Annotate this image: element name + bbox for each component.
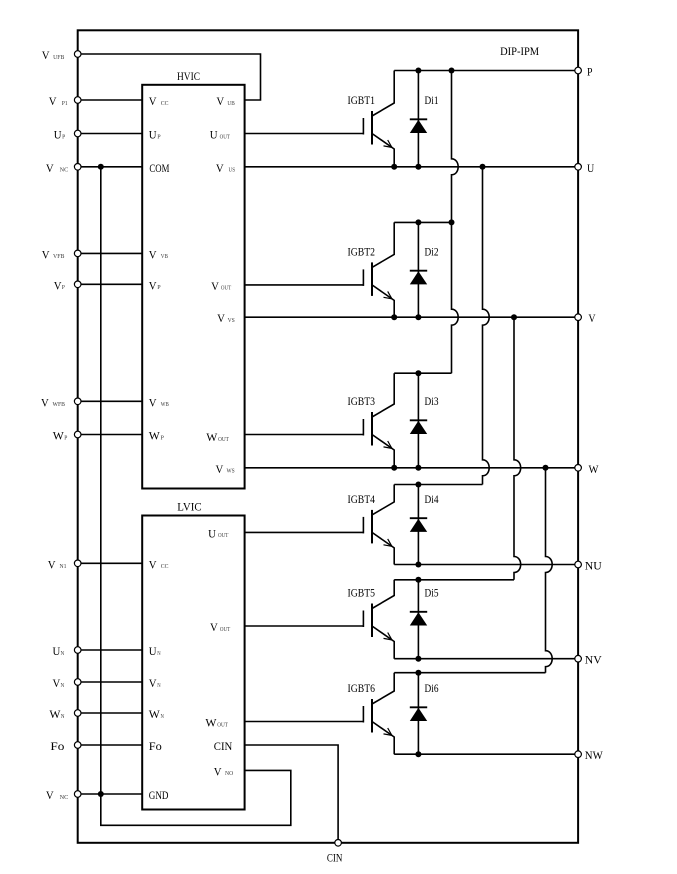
svg-text:U: U: [210, 130, 218, 142]
HVIC pin label VVS: [217, 313, 235, 325]
HVIC pin label UOUT: [210, 130, 230, 142]
wire IGBT2 collector rail: [394, 221, 451, 223]
wire IGBT4 collector rail: [394, 484, 482, 486]
wire HVIC UOUT to IGBT1 gate: [245, 133, 364, 135]
svg-text:U: U: [208, 528, 216, 540]
svg-text:P: P: [157, 133, 161, 140]
terminal pin NU: [575, 561, 603, 573]
svg-text:Di5: Di5: [425, 588, 439, 600]
LVIC pin label VOUT: [210, 622, 230, 634]
wire VNC bus and VNO return: [101, 167, 291, 826]
svg-text:IGBT5: IGBT5: [348, 588, 376, 600]
node VNC-COM junction: [98, 164, 104, 170]
svg-text:IGBT3: IGBT3: [348, 396, 376, 408]
svg-text:P1: P1: [62, 100, 68, 107]
svg-text:W: W: [205, 718, 216, 730]
svg-text:V: V: [48, 559, 56, 571]
wire VWFB to HVIC VWB: [78, 400, 143, 402]
svg-text:N: N: [61, 650, 65, 657]
LVIC pin label Fo: [149, 741, 162, 753]
svg-text:Di3: Di3: [425, 396, 439, 408]
node P-feedA junction: [449, 68, 455, 74]
HVIC pin label COM: [149, 163, 169, 175]
wire W feed to IGBT6 collector (hops NU and NV rails): [546, 468, 553, 673]
IGBT3 label: [348, 396, 376, 408]
svg-text:NC: NC: [60, 167, 69, 174]
svg-text:NU: NU: [585, 561, 603, 573]
HVIC pin label VCC: [149, 96, 169, 108]
wire NV rail: [394, 658, 578, 660]
svg-text:W: W: [53, 431, 64, 443]
terminal pin VNC: [46, 790, 81, 802]
svg-text:V: V: [216, 163, 224, 175]
node C2-Di2 junction: [415, 219, 421, 225]
HVIC pin label VUS: [216, 163, 236, 175]
node W-feedD junction: [543, 465, 549, 471]
HVIC pin label UP: [149, 130, 161, 142]
transistor IGBT4: [363, 485, 394, 565]
wire U rail (VUS to U terminal): [245, 166, 578, 168]
transistor IGBT6: [363, 673, 394, 755]
LVIC pin label VNO: [214, 766, 234, 778]
svg-text:V: V: [42, 249, 50, 261]
svg-text:V: V: [588, 313, 596, 325]
wire HVIC WOUT to IGBT3 gate: [245, 434, 364, 436]
terminal pin V: [575, 313, 596, 325]
terminal pin UN: [53, 646, 81, 658]
node C6-Di6 junction: [415, 670, 421, 676]
svg-text:US: US: [229, 167, 236, 174]
svg-text:N: N: [161, 713, 165, 720]
Di1 label: [425, 95, 439, 107]
svg-text:W: W: [149, 431, 160, 443]
svg-text:OUT: OUT: [218, 532, 228, 539]
LVIC pin label UN: [149, 646, 161, 658]
Di6 label: [425, 683, 439, 695]
terminal pin VVFB: [42, 249, 81, 261]
terminal pin VWFB: [41, 397, 81, 409]
node U-Di1 junction: [415, 164, 421, 170]
HVIC pin label VP: [149, 280, 161, 292]
terminal pin NW: [575, 750, 603, 762]
node V-feedC junction: [511, 314, 517, 320]
terminal pin VN1: [48, 559, 81, 571]
svg-text:W: W: [206, 432, 217, 444]
wire UN to LVIC UN: [78, 649, 143, 651]
LVIC pin label VN: [149, 678, 161, 690]
svg-text:V: V: [42, 50, 50, 62]
IGBT6 label: [348, 683, 376, 695]
IGBT5 label: [348, 588, 376, 600]
node C4-Di4 junction: [415, 482, 421, 488]
svg-text:NO: NO: [225, 770, 233, 777]
LVIC pin label GND: [149, 790, 169, 802]
svg-text:U: U: [149, 130, 157, 142]
LVIC pin label VCC: [149, 559, 169, 571]
svg-text:V: V: [149, 559, 157, 571]
svg-text:UFB: UFB: [53, 54, 65, 61]
terminal pin UP: [54, 130, 81, 142]
svg-text:OUT: OUT: [218, 436, 229, 443]
transistor IGBT1: [363, 71, 394, 167]
svg-text:V: V: [217, 313, 225, 325]
node NW-Di6 junction: [415, 751, 421, 757]
wire IGBT3 collector rail: [394, 372, 451, 374]
svg-text:OUT: OUT: [221, 285, 231, 292]
node C3-Di3 junction: [415, 370, 421, 376]
diode Di5: [410, 580, 427, 659]
svg-text:WS: WS: [227, 468, 236, 475]
terminal pin WN: [49, 709, 81, 721]
node U-emitter1 junction: [391, 164, 397, 170]
wire WP to HVIC WP: [78, 434, 143, 436]
svg-text:NV: NV: [585, 655, 603, 667]
svg-text:V: V: [41, 397, 49, 409]
svg-text:V: V: [46, 790, 54, 802]
svg-text:IGBT4: IGBT4: [348, 494, 376, 506]
wire IGBT5 collector rail: [394, 579, 514, 581]
svg-text:GND: GND: [149, 790, 169, 802]
DIP-IPM module outline box: [78, 30, 578, 843]
wire P feed to IGBT2 and IGBT3 collectors (hops U and V rails): [452, 71, 459, 374]
svg-text:U: U: [149, 646, 157, 658]
diode Di6: [410, 673, 427, 755]
wire LVIC UOUT to IGBT4 gate: [245, 531, 364, 533]
diode Di4: [410, 485, 427, 565]
IGBT4 label: [348, 494, 376, 506]
HVIC pin label WP: [149, 431, 164, 443]
node NU-Di4 junction: [415, 562, 421, 568]
svg-text:VB: VB: [161, 253, 169, 260]
svg-text:V: V: [214, 766, 222, 778]
svg-text:OUT: OUT: [217, 721, 228, 728]
terminal pin CIN: [327, 840, 343, 865]
svg-text:CIN: CIN: [327, 853, 343, 865]
node V-emitter2 junction: [391, 314, 397, 320]
transistor IGBT5: [363, 580, 394, 659]
terminal pin VP: [54, 280, 81, 292]
svg-text:V: V: [149, 678, 157, 690]
svg-text:V: V: [149, 280, 157, 292]
svg-text:Fo: Fo: [50, 741, 64, 753]
node NV-Di5 junction: [415, 656, 421, 662]
transistor IGBT2: [363, 222, 394, 317]
IGBT2 label: [348, 246, 376, 258]
Di5 label: [425, 588, 439, 600]
wire U feed to IGBT4 collector (hops V and W rails): [483, 167, 490, 485]
Di4 label: [425, 494, 439, 506]
wire VNC to HVIC COM: [78, 166, 143, 168]
LVIC pin label CIN: [214, 741, 233, 753]
svg-text:IGBT6: IGBT6: [348, 683, 376, 695]
transistor IGBT3: [363, 373, 394, 468]
terminal pin Fo: [50, 741, 81, 753]
HVIC label: [177, 71, 200, 83]
svg-text:N: N: [61, 682, 65, 689]
svg-text:LVIC: LVIC: [177, 502, 202, 514]
svg-text:OUT: OUT: [220, 133, 230, 140]
svg-text:P: P: [62, 284, 65, 291]
svg-text:N: N: [157, 650, 161, 657]
svg-text:U: U: [587, 163, 595, 175]
wire LVIC WOUT to IGBT6 gate: [245, 721, 364, 723]
wire UP to HVIC UP: [78, 133, 143, 135]
node P-Di1 junction: [415, 68, 421, 74]
IGBT1 label: [348, 95, 376, 107]
wire P rail: [394, 70, 578, 72]
svg-text:UB: UB: [227, 100, 235, 107]
HVIC pin label VVB: [149, 249, 169, 261]
node VNC-GND junction: [98, 791, 104, 797]
svg-text:P: P: [587, 67, 593, 79]
Di2 label: [425, 246, 439, 258]
svg-text:NC: NC: [60, 794, 69, 801]
svg-text:W: W: [149, 709, 160, 721]
svg-text:Di1: Di1: [425, 95, 439, 107]
svg-text:N1: N1: [60, 563, 67, 570]
DIP-IPM label: [500, 46, 539, 58]
terminal pin VNC: [46, 163, 81, 175]
node W-Di3 junction: [415, 465, 421, 471]
LVIC block U2: [142, 516, 244, 810]
node U-feedB junction: [480, 164, 486, 170]
svg-text:VFB: VFB: [53, 253, 65, 260]
svg-text:Di4: Di4: [425, 494, 439, 506]
svg-text:N: N: [61, 713, 65, 720]
wire V rail (VVS to V terminal): [245, 316, 578, 318]
svg-text:V: V: [149, 96, 157, 108]
diode Di2: [410, 222, 427, 317]
terminal pin VP1: [49, 96, 81, 108]
svg-text:V: V: [216, 464, 224, 476]
svg-text:CC: CC: [161, 563, 169, 570]
diode Di3: [410, 373, 427, 468]
svg-text:Di6: Di6: [425, 683, 439, 695]
wire VNC to LVIC GND: [78, 793, 143, 795]
wire LVIC CIN to bottom CIN terminal: [245, 745, 339, 843]
terminal pin VN: [53, 678, 81, 690]
svg-text:COM: COM: [149, 163, 169, 175]
wire LVIC VOUT to IGBT5 gate: [245, 625, 364, 627]
wire VP1 to HVIC VCC: [78, 99, 143, 101]
svg-text:V: V: [49, 96, 57, 108]
svg-text:P: P: [157, 284, 161, 291]
HVIC pin label VWS: [216, 464, 236, 476]
node V-Di2 junction: [415, 314, 421, 320]
HVIC pin label VOUT: [211, 281, 231, 293]
svg-text:WB: WB: [161, 401, 169, 408]
svg-text:VS: VS: [228, 317, 236, 324]
svg-text:OUT: OUT: [220, 626, 230, 633]
svg-text:V: V: [210, 622, 218, 634]
svg-text:U: U: [54, 130, 62, 142]
svg-text:W: W: [589, 464, 599, 476]
svg-text:V: V: [46, 163, 54, 175]
svg-text:DIP-IPM: DIP-IPM: [500, 46, 539, 58]
svg-text:IGBT1: IGBT1: [348, 95, 376, 107]
terminal pin P: [575, 67, 593, 79]
svg-text:N: N: [157, 682, 161, 689]
LVIC pin label WOUT: [205, 718, 228, 730]
svg-text:Di2: Di2: [425, 246, 439, 258]
svg-text:NW: NW: [585, 750, 603, 762]
svg-text:CC: CC: [161, 100, 169, 107]
HVIC pin label VWB: [149, 397, 169, 409]
terminal pin U: [575, 163, 595, 175]
HVIC block U1: [142, 85, 244, 489]
wire VN1 to LVIC VCC: [78, 562, 143, 564]
wire VVFB to HVIC VVB: [78, 252, 143, 254]
wire VN to LVIC VN: [78, 681, 143, 683]
terminal pin W: [575, 464, 599, 476]
diode Di1: [410, 71, 427, 167]
wire VP to HVIC VP: [78, 283, 143, 285]
wire NU rail: [394, 564, 578, 566]
wire WN to LVIC WN: [78, 712, 143, 714]
svg-text:HVIC: HVIC: [177, 71, 200, 83]
svg-text:P: P: [161, 434, 165, 441]
wire IGBT6 collector rail: [394, 672, 545, 674]
svg-text:P: P: [62, 133, 65, 140]
HVIC pin label VUB: [216, 96, 235, 108]
svg-text:W: W: [49, 709, 60, 721]
svg-text:V: V: [149, 249, 157, 261]
terminal pin WP: [53, 431, 81, 443]
wire NW rail: [394, 753, 578, 755]
wire W rail (VWS to W terminal): [245, 467, 578, 469]
svg-text:P: P: [64, 434, 67, 441]
svg-text:CIN: CIN: [214, 741, 233, 753]
node C5-Di5 junction: [415, 577, 421, 583]
svg-text:V: V: [149, 397, 157, 409]
Di3 label: [425, 396, 439, 408]
wire HVIC VOUT to IGBT2 gate: [245, 284, 364, 286]
node W-emitter3 junction: [391, 465, 397, 471]
wire V feed to IGBT5 collector (hops W and NU rails): [514, 317, 521, 580]
wire Fo to LVIC Fo: [78, 744, 143, 746]
LVIC pin label UOUT: [208, 528, 228, 540]
node C2-feedA junction: [449, 219, 455, 225]
LVIC pin label WN: [149, 709, 164, 721]
terminal pin NV: [575, 655, 603, 667]
svg-text:V: V: [211, 281, 219, 293]
svg-text:WFB: WFB: [53, 401, 66, 408]
LVIC label: [177, 502, 202, 514]
wire VUFB to HVIC VUB loop: [78, 54, 261, 100]
HVIC pin label WOUT: [206, 432, 229, 444]
svg-text:Fo: Fo: [149, 741, 162, 753]
svg-text:V: V: [216, 96, 224, 108]
svg-text:IGBT2: IGBT2: [348, 246, 376, 258]
terminal pin VUFB: [42, 50, 81, 62]
